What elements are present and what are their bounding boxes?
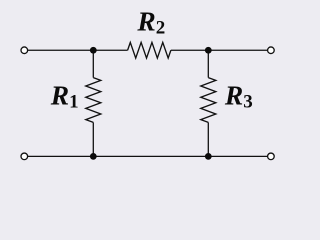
svg-text:R1: R1 xyxy=(50,80,79,113)
resistor R3 xyxy=(201,78,216,123)
wire bottom xyxy=(28,155,267,157)
terminal top-left xyxy=(21,47,28,54)
resistor R1 xyxy=(86,78,101,123)
node junction top-left xyxy=(90,47,97,54)
wire top-right segment xyxy=(171,49,267,51)
wire R3 upper lead xyxy=(207,50,209,77)
terminal bottom-right xyxy=(268,153,275,160)
node junction bottom-left xyxy=(90,153,97,160)
svg-text:R3: R3 xyxy=(224,80,253,113)
resistor R2 xyxy=(128,42,171,58)
terminal top-right xyxy=(268,47,275,54)
wire R3 lower lead xyxy=(207,122,209,156)
node junction bottom-right xyxy=(205,153,212,160)
wire R1 upper lead xyxy=(92,50,94,77)
svg-text:R2: R2 xyxy=(136,6,165,39)
wire R1 lower lead xyxy=(92,122,94,156)
node junction top-right xyxy=(205,47,212,54)
terminal bottom-left xyxy=(21,153,28,160)
wire top-left segment xyxy=(28,49,128,51)
